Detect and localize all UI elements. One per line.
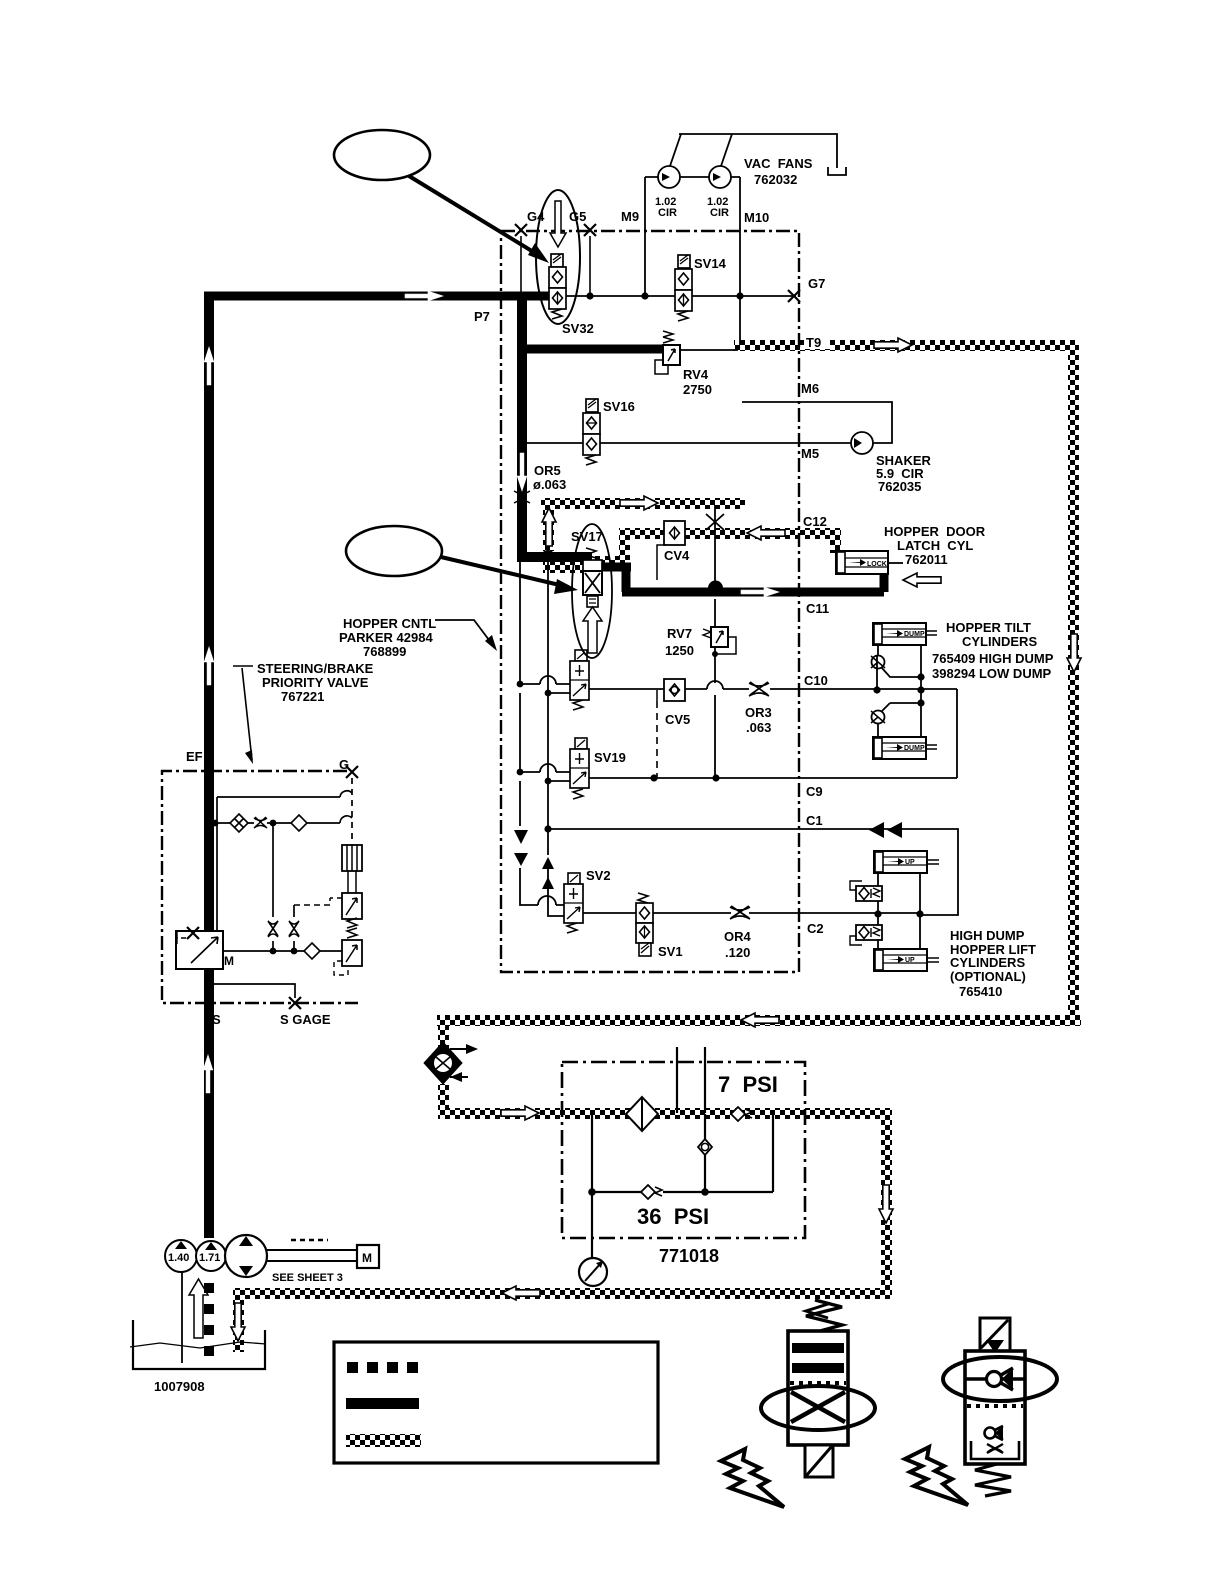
svg-text:G4: G4 — [527, 209, 545, 224]
wire: thick SV17 outlet step — [596, 567, 631, 592]
svg-text:C11: C11 — [806, 601, 829, 616]
checkered line: filter to main return — [438, 1084, 449, 1114]
svg-text:SV14: SV14 — [694, 256, 727, 271]
suction line into tank — [181, 1272, 183, 1363]
relief valve RV4 — [655, 331, 680, 374]
svg-text:1.71: 1.71 — [199, 1252, 220, 1264]
svg-text:STEERING/BRAKE: STEERING/BRAKE — [257, 661, 374, 676]
svg-text:SV19: SV19 — [594, 750, 626, 765]
shaker motor circle — [851, 432, 873, 454]
fan motor 2 (1.02 CIR) — [709, 166, 731, 188]
wire: C2 line — [583, 912, 920, 914]
pilot check (tilt top) — [877, 645, 879, 656]
solenoid valve SV14 — [675, 255, 692, 321]
wire: SV19 spool left ports — [520, 772, 570, 781]
checkered line: hopper circuit bottom return — [437, 1015, 1081, 1026]
cartridge check upper (lift) — [850, 881, 882, 901]
wire: tilt cylinder right vertical — [920, 645, 922, 737]
solenoid valve SV1 — [636, 893, 653, 956]
svg-text:SV1: SV1 — [658, 944, 683, 959]
svg-text:LOCK: LOCK — [867, 561, 887, 568]
wire: thick P7 drop vertical — [517, 292, 527, 561]
leader line HOPPER CNTL — [435, 620, 495, 648]
svg-text:DUMP: DUMP — [904, 631, 925, 638]
wire: second supply vertical x548 — [548, 561, 565, 916]
wire: lift cylinder verticals — [878, 873, 920, 949]
svg-text:T9: T9 — [806, 335, 821, 350]
svg-text:1250: 1250 — [665, 643, 694, 658]
wire: S outlet below spool — [214, 984, 295, 998]
svg-text:762032: 762032 — [754, 172, 797, 187]
wire: vertical x217 — [216, 797, 218, 931]
port G4 X mark — [515, 224, 527, 236]
cartridge check lower (lift) — [850, 925, 882, 945]
pump 1.71 — [196, 1241, 226, 1271]
port G X mark (steering) — [346, 766, 358, 778]
svg-text:(OPTIONAL): (OPTIONAL) — [950, 969, 1026, 984]
main piston pump — [225, 1235, 267, 1277]
flow arrow down OR5 in P7 drop — [517, 453, 527, 491]
svg-text:762035: 762035 — [878, 479, 921, 494]
checkered line: OR5 tank line horizontal — [541, 498, 745, 509]
directional valve SV19 (spool) — [570, 738, 589, 799]
hopper tilt cylinder (bottom) — [873, 737, 937, 759]
orifice X (steering) — [254, 817, 267, 828]
wire: vertical x294 with X — [293, 905, 295, 951]
svg-text:765409 HIGH DUMP: 765409 HIGH DUMP — [932, 651, 1054, 666]
flow arrow up on riser to OR5 tank line — [542, 508, 556, 546]
svg-text:1007908: 1007908 — [154, 1379, 205, 1394]
hopper tilt cylinder (top) — [873, 623, 937, 645]
checkered line: under SV17 — [543, 562, 589, 573]
legend: checkered sample — [346, 1434, 421, 1447]
hollow up arrow below SV17 — [583, 607, 602, 653]
flow arrow up in trunk (upper) — [204, 347, 214, 385]
check diamond (steering) — [291, 815, 307, 831]
checkered line: manifold right drop — [881, 1113, 892, 1294]
cartridge valve SV17 body — [583, 548, 602, 607]
wire: M6 line — [742, 402, 892, 443]
svg-text:DUMP: DUMP — [904, 745, 925, 752]
check valve below 7psi — [704, 1114, 706, 1192]
svg-text:HOPPER DOOR: HOPPER DOOR — [884, 524, 986, 539]
svg-text:CIR: CIR — [710, 207, 729, 219]
svg-text:EF: EF — [186, 749, 203, 764]
checkered line: SV17 outlet step — [588, 556, 625, 567]
case drain dashed line — [204, 1283, 214, 1367]
checkered line: drop to filter — [438, 1024, 449, 1048]
wire: gauge drop — [591, 1114, 593, 1259]
svg-text:CYLINDERS: CYLINDERS — [950, 955, 1025, 970]
svg-text:VAC FANS: VAC FANS — [744, 156, 813, 171]
high dump lift cylinder (bottom) — [874, 949, 939, 971]
wire: diagonal drops to fan motors — [670, 134, 732, 166]
svg-text:RV7: RV7 — [667, 626, 692, 641]
wire: x520 continues to SV2 with down arrows — [520, 868, 565, 905]
checkered line: T9 horizontal — [734, 340, 1078, 351]
svg-text:HOPPER TILT: HOPPER TILT — [946, 620, 1031, 635]
svg-text:C9: C9 — [806, 784, 823, 799]
svg-text:OR4: OR4 — [724, 929, 752, 944]
svg-text:C10: C10 — [804, 673, 828, 688]
ellipse around SV17 cartridge — [572, 524, 612, 658]
svg-text:CYLINDERS: CYLINDERS — [962, 634, 1037, 649]
svg-text:765410: 765410 — [959, 984, 1002, 999]
leader line steering — [233, 666, 253, 760]
checkered line: riser from thick junction to OR5 tank line — [543, 507, 554, 551]
svg-text:SV2: SV2 — [586, 868, 611, 883]
wire: steering upper line — [217, 791, 352, 797]
callout ellipse 1 (top) — [334, 130, 430, 180]
flow arrow right on T9 line — [874, 338, 912, 352]
svg-text:LATCH CYL: LATCH CYL — [897, 538, 973, 553]
svg-text:C2: C2 — [807, 921, 824, 936]
svg-text:M5: M5 — [801, 446, 819, 461]
legend: thick line sample — [346, 1398, 419, 1409]
checkered line: drop to latch cylinder — [830, 536, 841, 553]
check valve CV4 — [657, 521, 685, 580]
reservoir tank 1007908 — [133, 1320, 265, 1369]
svg-text:768899: 768899 — [363, 644, 406, 659]
steering relief valve upper — [330, 893, 362, 928]
fan motor 1 (1.02 CIR) — [658, 166, 680, 188]
svg-text:S: S — [212, 1012, 221, 1027]
label T9 — [804, 334, 830, 349]
svg-text:HOPPER CNTL: HOPPER CNTL — [343, 616, 436, 631]
orifice OR3 — [749, 682, 769, 696]
enlarged valve symbol B (SV17 type) — [943, 1318, 1057, 1496]
svg-text:36 PSI: 36 PSI — [637, 1204, 709, 1229]
callout arrow 1 to SV32 — [409, 176, 540, 256]
node: G5 junction — [586, 292, 593, 299]
bidirectional filter on return — [424, 1042, 478, 1084]
checkered line: riser to C12 — [619, 532, 630, 562]
suction up arrow — [189, 1279, 208, 1338]
flow arrow down on manifold right drop — [879, 1185, 893, 1223]
wire: pilot from x294 to relief — [294, 898, 330, 905]
lightning bolt B — [905, 1447, 968, 1505]
36 PSI check valve — [641, 1185, 655, 1199]
wire: S line through spool — [223, 950, 342, 952]
svg-text:RV4: RV4 — [683, 367, 709, 382]
wire: RV4 outlet to T9 — [680, 349, 738, 351]
vac fans tank symbol — [828, 167, 846, 175]
junction bump on thick SV17 line — [541, 550, 555, 557]
dash-dot boundary: steering/brake priority valve box — [162, 771, 358, 1003]
legend: dash-dot sample — [347, 1362, 358, 1373]
svg-text:UP: UP — [905, 859, 915, 866]
orifice OR5 arcs — [514, 491, 530, 503]
svg-text:SV17: SV17 — [571, 529, 603, 544]
svg-text:HIGH DUMP: HIGH DUMP — [950, 928, 1025, 943]
wire: thick pump pressure trunk vertical — [204, 296, 214, 1238]
svg-text:398294 LOW DUMP: 398294 LOW DUMP — [932, 666, 1052, 681]
flow arrow down into tank — [231, 1303, 245, 1341]
svg-text:P7: P7 — [474, 309, 490, 324]
checkered line: main return to 771018 manifold — [438, 1108, 892, 1119]
enlarged valve symbol A (SV32 type) — [761, 1300, 875, 1477]
wire: vertical C11/CV4 branch line — [714, 505, 716, 778]
callout arrow 2 to SV17 — [441, 557, 568, 587]
svg-text:7 PSI: 7 PSI — [718, 1072, 778, 1097]
svg-text:CIR: CIR — [658, 207, 677, 219]
wire: vertical x273 with X — [272, 823, 274, 951]
checkered line: far right vertical return — [1068, 340, 1079, 1026]
svg-text:OR3: OR3 — [745, 705, 772, 720]
directional valve SV17 (spool) — [570, 650, 589, 710]
flow arrow in top pressure line — [405, 291, 443, 301]
wire: SV17 spool left ports — [520, 684, 570, 693]
wire: C10 line — [589, 688, 957, 690]
ellipse around SV32 — [536, 190, 580, 324]
svg-text:767221: 767221 — [281, 689, 324, 704]
wire: G5 port drop — [589, 236, 591, 296]
node: M9 junction — [641, 292, 648, 299]
steering unit (vertical bars) — [342, 845, 362, 893]
legend box — [334, 1342, 658, 1463]
svg-text:CV4: CV4 — [664, 548, 690, 563]
svg-text:M: M — [362, 1251, 372, 1265]
svg-text:G: G — [339, 757, 349, 772]
svg-text:M6: M6 — [801, 381, 819, 396]
wire: M9 vertical — [644, 177, 646, 296]
lightning bolt A — [721, 1449, 784, 1507]
hopper door latch cylinder 762011 — [836, 551, 903, 574]
flow arrow left on C12 line — [747, 526, 785, 540]
wire: C9 line — [589, 689, 957, 778]
svg-text:G5: G5 — [569, 209, 586, 224]
motor box M — [357, 1245, 379, 1268]
svg-text:M: M — [224, 954, 234, 968]
black chevron arrow bottom right of manifold — [806, 1304, 828, 1318]
svg-text:CV5: CV5 — [665, 712, 690, 727]
dash-dot boundary: hopper control manifold P7 box — [501, 231, 799, 972]
pilot check (tilt bottom) — [881, 703, 921, 712]
wire: thick C11 line to latch cylinder — [622, 572, 884, 592]
port G5 X mark — [584, 224, 596, 236]
wire: steering second line — [214, 816, 352, 823]
svg-text:762011: 762011 — [905, 552, 948, 567]
flow arrow right on OR5 tank line — [620, 496, 658, 510]
check diamond on S line — [304, 943, 320, 959]
wire: VAC fans top line — [679, 134, 837, 168]
orifice OR4 — [730, 906, 750, 919]
pump assembly: charge pump 1.40 — [165, 1240, 197, 1272]
steering relief valve lower — [334, 928, 362, 975]
flow arrow left on hopper bottom return — [741, 1013, 779, 1027]
svg-text:OR5: OR5 — [534, 463, 561, 478]
solenoid valve SV32 — [549, 254, 566, 319]
svg-text:771018: 771018 — [659, 1246, 719, 1266]
svg-text:ø.063: ø.063 — [533, 477, 566, 492]
flow arrow up in trunk (middle) — [204, 647, 214, 685]
high dump lift cylinder (top) — [874, 851, 939, 873]
wire: thick top pressure line to SV32 — [204, 292, 552, 301]
wire: left supply vertical x520 — [519, 561, 521, 826]
dashed pilot line CV5 — [656, 701, 658, 778]
filter diamond (steering) — [230, 814, 248, 832]
svg-text:SV16: SV16 — [603, 399, 635, 414]
pressure gauge — [579, 1258, 607, 1286]
svg-text:C12: C12 — [803, 514, 827, 529]
node: C12 crossing X junction — [706, 514, 724, 530]
wire: C1 line — [548, 829, 958, 915]
wire: fan supply bus — [645, 176, 740, 178]
wire: 36psi horizontal — [592, 1114, 773, 1192]
wire: thick branch to RV4 — [522, 345, 663, 354]
flow arrow right on main return — [501, 1106, 539, 1120]
svg-text:UP: UP — [905, 957, 915, 964]
flow arrow down on far right return — [1067, 634, 1081, 672]
7 PSI check valve — [731, 1107, 745, 1121]
dashed pilot from G — [351, 778, 353, 845]
checkered line: C12 horizontal — [619, 528, 841, 539]
flow arrow up in trunk (lower) — [203, 1055, 213, 1093]
node: M10 junction — [736, 292, 743, 299]
wire: thick line into SV17 — [517, 552, 592, 562]
svg-text:S GAGE: S GAGE — [280, 1012, 331, 1027]
checkered line: stub into tank — [233, 1296, 244, 1352]
svg-text:G7: G7 — [808, 276, 825, 291]
junction bump on thick C11 at branch — [708, 581, 723, 589]
drive shaft to motor — [267, 1250, 357, 1261]
wire: M10 vertical — [739, 177, 741, 345]
port G7 X mark — [788, 290, 800, 302]
svg-text:.063: .063 — [746, 720, 771, 735]
svg-text:C1: C1 — [806, 813, 823, 828]
svg-text:.120: .120 — [725, 945, 750, 960]
flow arrow right in C11 thick line — [741, 587, 779, 597]
wire: M5 shaker line — [527, 442, 851, 444]
svg-text:PARKER 42984: PARKER 42984 — [339, 630, 433, 645]
wire: gallery line SV32 to G7 — [556, 295, 796, 297]
callout ellipse 2 (middle) — [346, 526, 442, 576]
relief valve RV7 — [703, 627, 736, 657]
svg-text:M9: M9 — [621, 209, 639, 224]
directional valve SV2 (spool) — [564, 873, 583, 933]
check valve CV5 — [657, 679, 685, 701]
hollow down arrow above SV32 — [550, 201, 566, 247]
dash-dot boundary: 771018 manifold box — [562, 1062, 805, 1238]
checkered line: bottom return to tank — [233, 1288, 892, 1299]
filter in 771018 — [626, 1097, 658, 1131]
wire: G4 port drop — [520, 236, 522, 292]
svg-text:SV32: SV32 — [562, 321, 594, 336]
solenoid valve SV16 — [583, 399, 600, 465]
svg-text:2750: 2750 — [683, 382, 712, 397]
771018 manifold stubs up — [677, 1047, 705, 1113]
svg-text:SEE SHEET 3: SEE SHEET 3 — [272, 1272, 343, 1284]
svg-text:M10: M10 — [744, 210, 769, 225]
steering priority spool valve — [176, 927, 234, 969]
flow arrow left on bottom return — [502, 1286, 540, 1300]
hollow arrow left at latch cylinder — [903, 573, 941, 587]
svg-text:1.40: 1.40 — [168, 1252, 189, 1264]
port S GAGE X mark — [289, 997, 301, 1009]
svg-text:PRIORITY VALVE: PRIORITY VALVE — [262, 675, 369, 690]
